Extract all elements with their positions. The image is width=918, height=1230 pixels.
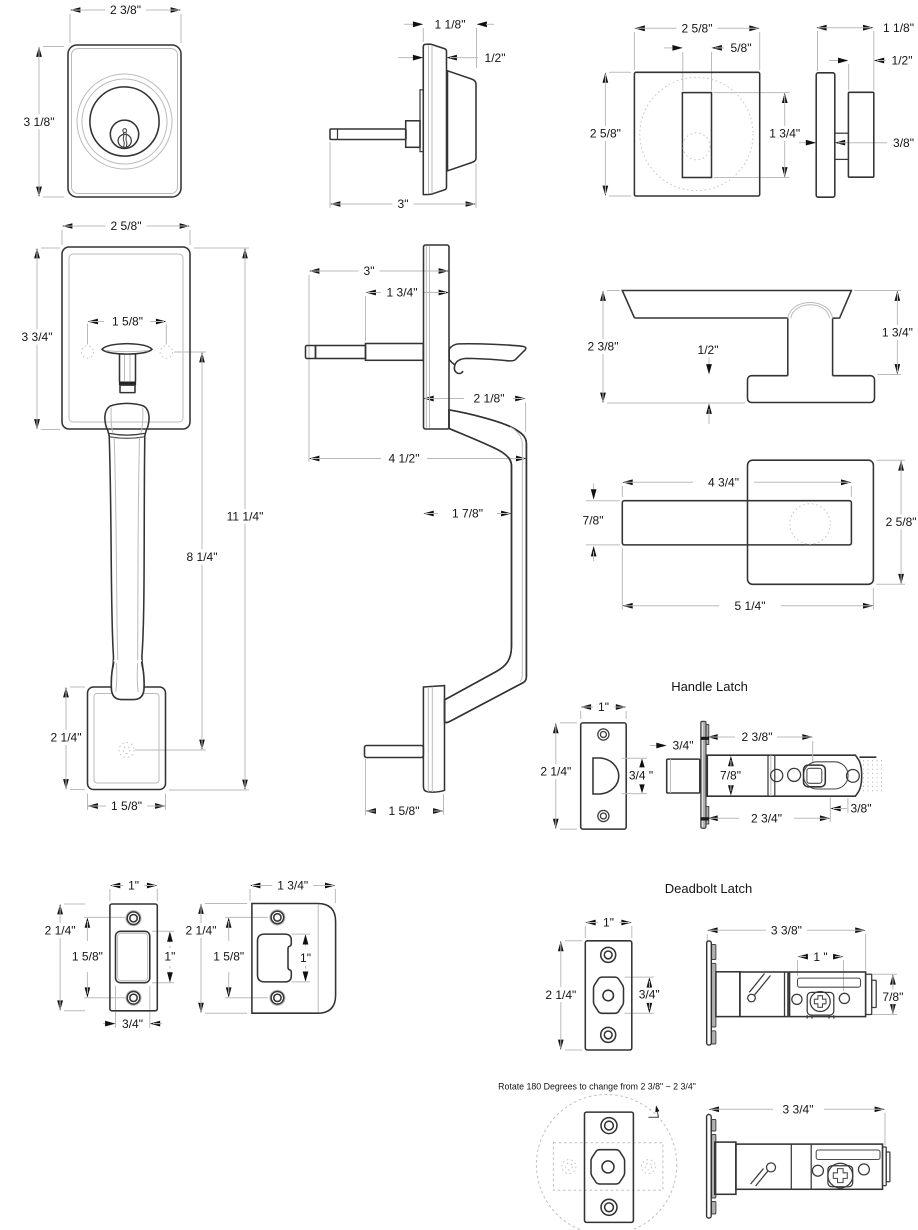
svg-text:1 ": 1 " (813, 950, 827, 964)
svg-text:Deadbolt Latch: Deadbolt Latch (665, 881, 752, 896)
svg-text:1 1/8": 1 1/8" (883, 21, 914, 35)
svg-text:7/8": 7/8" (720, 769, 741, 783)
svg-text:2 3/8": 2 3/8" (588, 340, 619, 354)
svg-text:1": 1" (128, 879, 139, 893)
svg-text:2 5/8": 2 5/8" (111, 219, 142, 233)
svg-text:3": 3" (364, 264, 375, 278)
svg-text:3 3/4": 3 3/4" (22, 330, 53, 344)
svg-text:3 3/8": 3 3/8" (771, 924, 802, 938)
svg-text:2 5/8": 2 5/8" (886, 515, 917, 529)
svg-text:3": 3" (398, 197, 409, 211)
svg-text:Handle Latch: Handle Latch (671, 679, 748, 694)
svg-text:1 3/4": 1 3/4" (387, 286, 418, 300)
svg-text:3/4": 3/4" (639, 987, 660, 1001)
svg-text:2 1/4": 2 1/4" (186, 924, 217, 938)
svg-text:1 7/8": 1 7/8" (452, 507, 483, 521)
svg-text:1/2": 1/2" (485, 51, 506, 65)
svg-text:1 3/4": 1 3/4" (769, 127, 800, 141)
svg-text:2 3/4": 2 3/4" (751, 812, 782, 826)
svg-text:1 3/4": 1 3/4" (882, 326, 913, 340)
svg-text:1 5/8": 1 5/8" (213, 950, 244, 964)
svg-text:1 5/8": 1 5/8" (111, 799, 142, 813)
svg-text:8 1/4": 8 1/4" (187, 550, 218, 564)
svg-text:2 3/8": 2 3/8" (742, 730, 773, 744)
svg-text:1": 1" (598, 700, 609, 714)
svg-text:1 3/4": 1 3/4" (277, 879, 308, 893)
svg-text:1 5/8": 1 5/8" (389, 804, 420, 818)
svg-text:5/8": 5/8" (731, 41, 752, 55)
svg-text:3/8": 3/8" (893, 136, 914, 150)
svg-text:7/8": 7/8" (583, 514, 604, 528)
svg-text:2 1/4": 2 1/4" (545, 988, 576, 1002)
svg-text:2 1/8": 2 1/8" (474, 392, 505, 406)
svg-text:3 1/8": 3 1/8" (24, 115, 55, 129)
svg-text:3/4 ": 3/4 " (629, 769, 653, 783)
svg-text:3/8": 3/8" (851, 802, 872, 816)
svg-text:1": 1" (603, 916, 614, 930)
svg-text:2 1/4": 2 1/4" (51, 731, 82, 745)
svg-text:1 1/8": 1 1/8" (435, 18, 466, 32)
svg-text:4 1/2": 4 1/2" (389, 452, 420, 466)
svg-text:1": 1" (300, 951, 311, 965)
svg-text:2 5/8": 2 5/8" (682, 22, 713, 36)
svg-text:3 3/4": 3 3/4" (783, 1103, 814, 1117)
svg-text:2 5/8": 2 5/8" (590, 127, 621, 141)
svg-text:5 1/4": 5 1/4" (735, 599, 766, 613)
svg-text:7/8": 7/8" (882, 990, 903, 1004)
svg-text:2 1/4": 2 1/4" (45, 924, 76, 938)
svg-text:1 5/8": 1 5/8" (72, 950, 103, 964)
svg-text:3/4": 3/4" (122, 1017, 143, 1031)
svg-text:3/4": 3/4" (673, 739, 694, 753)
svg-text:1": 1" (164, 950, 175, 964)
svg-text:2 1/4": 2 1/4" (540, 765, 571, 779)
svg-text:Rotate 180 Degrees to change f: Rotate 180 Degrees to change from 2 3/8"… (498, 1082, 696, 1092)
svg-text:2 3/8": 2 3/8" (110, 3, 141, 17)
svg-text:1/2": 1/2" (892, 54, 913, 68)
svg-text:4 3/4": 4 3/4" (708, 476, 739, 490)
svg-text:11 1/4": 11 1/4" (227, 510, 264, 524)
svg-text:1/2": 1/2" (698, 343, 719, 357)
svg-text:1 5/8": 1 5/8" (112, 315, 143, 329)
